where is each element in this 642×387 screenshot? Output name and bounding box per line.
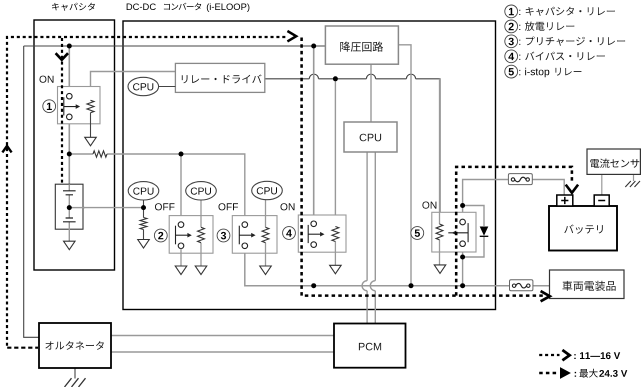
wire: CPU to PCM lines with hops (362, 152, 375, 324)
legend line 2 (505, 20, 574, 33)
node: junction capacitor feed (67, 44, 72, 49)
node: junction relay5-bus (460, 283, 465, 288)
relay K4 contacts (308, 221, 324, 247)
terminal: battery minus (594, 195, 609, 206)
resistor: series resistor on discharge bus (93, 151, 107, 157)
ground: CPU sense resistor (138, 240, 150, 249)
legend line 1 (505, 5, 615, 18)
wire: capacitor mid tap (y=207.6) (69, 207, 143, 209)
CPU oval 3 (relay2) (186, 182, 217, 200)
relay K1 coil leads (90, 113, 92, 137)
node: capacitor mid tap (67, 205, 72, 210)
label: ON relay5 (422, 202, 436, 209)
ground: relay K5 coil (434, 265, 446, 274)
block: step-down circuit (kouatsu kairo) (325, 26, 398, 64)
wire: relay1 coil to relay driver (91, 72, 176, 101)
wire: current sensor to battery minus (601, 174, 603, 195)
capacitor C2 plates (63, 218, 76, 222)
node: junction relay4 coil (333, 76, 338, 81)
wire: relay K2 contact ground lead (180, 249, 182, 266)
wire: diode branch (463, 206, 484, 258)
fuse F2 (equipment feed) (510, 280, 533, 291)
wire: alternator riser (x=23.7) (24, 46, 39, 337)
ground: alternator chassis (65, 378, 86, 387)
label: OFF relay2 (155, 203, 175, 210)
wire: relay driver output (y=78.8) with hops (265, 74, 440, 212)
wire: 11-16V dotted path (alternator loop) (7, 37, 287, 348)
wire: current sensor ground lead (633, 174, 635, 181)
node: junction CPU sense (141, 205, 146, 210)
wire: relay K5 coil leads (439, 79, 441, 265)
relay K4 coil (332, 227, 339, 242)
component: double-layer capacitor box (55, 184, 83, 229)
node: junction bus x=411 (409, 283, 414, 288)
wire: capacitor feed vertical (x=69) (68, 46, 70, 185)
ground: relay K2 coil (195, 266, 207, 275)
wire: relay4 contact feed (x=313.7) (313, 46, 315, 215)
wire: CPU oval1 to relay driver (159, 86, 176, 88)
legend: max 24.3V arrow (539, 367, 627, 379)
ground: relay K1 coil (85, 137, 97, 146)
CPU oval 1 (relay driver) (128, 77, 159, 95)
block: current sensor (587, 149, 640, 174)
legend line 3 (505, 35, 625, 48)
wire: relay K3 coil leads (265, 200, 267, 266)
designator: circled 2 (154, 229, 167, 242)
wire: relay4 coil feed (x=335.4) (334, 79, 336, 227)
arrow: chevron into battery (566, 185, 578, 193)
arrow: 11-16V right chevron into converter (287, 31, 296, 41)
label: DC-DC converter (i-ELOOP) (126, 1, 250, 12)
relay K2 contacts (176, 222, 192, 249)
relay K1 contacts (64, 93, 80, 119)
capacitor C1 plates (63, 191, 76, 195)
svg-text:(i-ELOOP): (i-ELOOP) (206, 1, 250, 12)
label: capacitor (kyapashita) (52, 3, 95, 11)
label: OFF relay3 (219, 203, 239, 210)
svg-text:DC-DC: DC-DC (126, 1, 156, 12)
legend line 4 (505, 50, 605, 63)
relay K3 box (232, 216, 277, 254)
designator: circled 1 (43, 100, 56, 113)
block: battery (549, 206, 617, 251)
wire: output bus (y=285.7) (245, 253, 550, 286)
relay K1 box (58, 87, 101, 124)
resistor: CPU sense pulldown (140, 218, 147, 230)
block: vehicle electrical equipment (550, 270, 625, 299)
wire: capacitor mid tap inside box (69, 207, 85, 209)
wire: max-24.3V dotted path (output loop) (302, 38, 572, 296)
block: alternator (39, 323, 111, 368)
node: junction diode top (460, 203, 465, 208)
wire: alternator to PCM lower (111, 351, 334, 353)
legend line 5 (505, 65, 582, 78)
wire: step-down to CPU (x=371) (370, 64, 372, 122)
relay K5 coil (436, 224, 443, 240)
CPU oval 4 (relay3) (252, 181, 283, 199)
ground: capacitor bottom (64, 241, 76, 250)
wire: capacitor internal vertical (68, 184, 70, 241)
wire: relay5 contact top to fuse (463, 180, 509, 213)
arrow: chevron into vehicle equipment (541, 291, 550, 301)
wire: discharge bus (y=154) (69, 154, 245, 216)
ground: relay K2 contact (175, 266, 187, 275)
block: PCM (334, 324, 406, 368)
node: junction relay4-bus (311, 283, 316, 288)
ground: relay K4 coil (330, 265, 342, 274)
relay K4 box (298, 215, 346, 252)
wire: relay K4 coil lower lead (334, 242, 336, 266)
ground: current sensor chassis (625, 181, 640, 187)
wire: step-down right output to bus (398, 45, 411, 286)
designator: circled 3 (217, 229, 230, 242)
ground: relay K3 coil (260, 266, 272, 275)
block: CPU main (344, 122, 397, 152)
block: DC-DC converter enclosure (123, 21, 496, 310)
CPU oval 2 (sense) (128, 182, 159, 200)
wire: relay5 contact bottom to bus (462, 252, 464, 286)
fuse F1 (battery feed) (508, 174, 532, 185)
relay K3 contacts (239, 222, 255, 249)
relay K5 contacts (448, 219, 468, 246)
wire: alternator ground lead (74, 368, 76, 379)
diode: bypass diode (480, 227, 489, 237)
designator: circled 4 (283, 227, 296, 240)
node: junction diode bottom (460, 255, 465, 260)
arrow: charge down chevron into capacitor (56, 53, 68, 60)
wire: alternator to step-down circuit (y=46) (24, 45, 326, 47)
wire: relay2 contact feed (x=181) (180, 154, 182, 216)
wire: fuse to battery plus (532, 180, 564, 196)
relay K5 box (432, 212, 476, 252)
terminal: battery plus (557, 195, 573, 206)
node: junction relay4 feed (311, 44, 316, 49)
wire: CPU sense resistor leads (143, 200, 145, 240)
wire: alternator to PCM upper (111, 335, 334, 337)
block: relay driver (175, 63, 264, 92)
node: junction bus-relay2 (179, 152, 184, 157)
relay K2 coil (198, 227, 205, 242)
arrow: 11-16V up chevron (2, 146, 11, 153)
wire: relay K2 coil leads (200, 200, 202, 266)
node: junction bus-capacitor (67, 152, 72, 157)
label: ON relay4 (281, 203, 295, 210)
relay K1 coil (87, 100, 94, 112)
relay K3 coil (262, 227, 269, 242)
legend: 11-16V arrow (539, 350, 620, 360)
relay K2 box (169, 216, 213, 254)
block: capacitor unit enclosure (34, 20, 115, 270)
designator: circled 5 (411, 227, 424, 240)
label: ON relay1 (40, 76, 54, 83)
